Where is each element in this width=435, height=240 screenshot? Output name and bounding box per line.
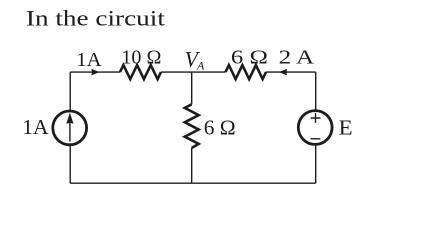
wire: right branch lower (voltage source to bottom-right corner) (315, 145, 317, 184)
svg-text:In the circuit: In the circuit (26, 5, 166, 30)
svg-text:2 A: 2 A (279, 47, 315, 69)
svg-text:E: E (339, 116, 353, 140)
svg-text:10 Ω: 10 Ω (121, 46, 161, 68)
arrowhead: 1A current direction arrow pointing right on top wire (91, 69, 99, 76)
wire: left branch upper (top-left corner down to current source) (69, 72, 71, 111)
svg-text:1A: 1A (76, 49, 102, 71)
resistor R2 6 ohm (horizontal zigzag on top wire right) (226, 65, 267, 79)
wire: bottom wire (bottom-left corner to bottom-right corner) (70, 182, 316, 184)
arrowhead: 2A current direction arrow pointing left on top wire (279, 69, 287, 76)
wire: top wire middle segment (10-ohm resistor to 6-ohm resistor through node A) (161, 71, 226, 73)
wire: middle branch upper (node A down to 6-ohm resistor) (191, 72, 193, 104)
wire: left branch lower (current source to bottom-left corner) (69, 145, 71, 183)
current source arrow (pointing up inside circle) (69, 122, 71, 142)
wire: top wire right segment (6-ohm resistor to top-right corner) (266, 71, 316, 73)
resistor R3 6 ohm (vertical zigzag middle branch) (185, 104, 199, 148)
resistor R1 10 ohm (horizontal zigzag on top wire) (120, 65, 161, 79)
voltage source plus sign (311, 113, 321, 123)
wire: middle branch lower (6-ohm resistor to bottom wire) (191, 148, 193, 183)
svg-text:1A: 1A (22, 115, 49, 139)
wire: top wire left segment (top-left corner to 10-ohm resistor) (70, 71, 120, 73)
svg-text:6 Ω: 6 Ω (231, 47, 268, 69)
voltage source minus sign (311, 138, 321, 140)
svg-text:VA: VA (185, 47, 205, 72)
wire: right branch upper (top-right corner down to voltage source) (315, 72, 317, 111)
voltage source E (circle) (298, 111, 332, 145)
current source I1 1A (circle) (53, 111, 87, 145)
svg-text:6 Ω: 6 Ω (204, 115, 236, 139)
